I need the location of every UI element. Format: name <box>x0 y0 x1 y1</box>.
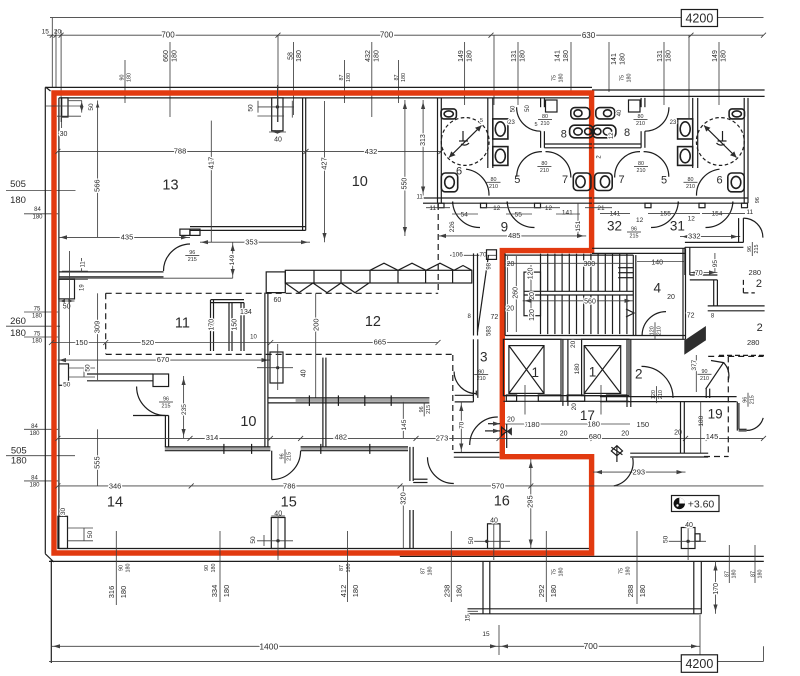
+3.60 level marker <box>672 496 720 512</box>
svg-text:8: 8 <box>624 127 630 139</box>
svg-text:20: 20 <box>506 305 514 312</box>
svg-text:1: 1 <box>589 365 597 380</box>
svg-text:555: 555 <box>92 456 101 469</box>
svg-text:87: 87 <box>339 565 345 571</box>
svg-text:180: 180 <box>10 195 26 206</box>
svg-text:90: 90 <box>204 565 210 571</box>
svg-text:210: 210 <box>477 376 486 382</box>
svg-text:260: 260 <box>513 287 520 299</box>
svg-text:12: 12 <box>545 205 553 212</box>
dim 485 <box>438 235 587 237</box>
svg-text:320: 320 <box>399 492 408 505</box>
dim 788 432 line <box>58 150 441 152</box>
svg-text:180: 180 <box>126 73 132 82</box>
svg-text:90: 90 <box>118 565 124 571</box>
svg-text:170: 170 <box>713 583 720 595</box>
stair mid landing lines <box>524 290 633 292</box>
svg-text:180: 180 <box>172 50 179 62</box>
stairwell top wall black part <box>592 247 686 249</box>
svg-text:72: 72 <box>491 314 499 321</box>
stair outer lines <box>504 253 506 335</box>
stair bottom wall <box>505 335 685 337</box>
heating niche on left wall <box>59 279 75 299</box>
dim 70 <box>690 272 718 274</box>
svg-text:180: 180 <box>222 585 231 598</box>
dim 427 vertical <box>324 101 326 242</box>
svg-text:50: 50 <box>511 105 517 112</box>
svg-text:14: 14 <box>107 495 123 511</box>
left wall start verticals <box>51 18 53 87</box>
elevator shaft 1 <box>503 339 561 395</box>
door jambs room 13 <box>180 229 190 235</box>
svg-text:20: 20 <box>560 431 568 438</box>
long dim line y438 <box>58 437 764 439</box>
svg-text:15: 15 <box>464 614 471 622</box>
svg-text:80: 80 <box>638 114 644 120</box>
svg-text:2: 2 <box>635 366 643 381</box>
svg-text:180: 180 <box>625 567 631 576</box>
svg-text:332: 332 <box>688 232 701 241</box>
svg-text:314: 314 <box>206 433 219 442</box>
svg-text:180: 180 <box>574 363 581 374</box>
svg-text:210: 210 <box>657 326 663 335</box>
svg-text:566: 566 <box>92 179 101 192</box>
bowtie symbol at red corner <box>502 427 507 435</box>
svg-text:149: 149 <box>712 50 719 62</box>
svg-text:210: 210 <box>700 376 709 382</box>
svg-text:12: 12 <box>609 132 615 139</box>
svg-text:412: 412 <box>339 585 348 598</box>
svg-text:292: 292 <box>537 585 546 598</box>
svg-text:1: 1 <box>532 365 540 380</box>
walls below rooms 2/19 <box>630 452 708 454</box>
svg-text:180: 180 <box>32 339 43 345</box>
svg-text:87: 87 <box>339 75 345 81</box>
svg-text:180: 180 <box>346 73 352 82</box>
svg-text:50: 50 <box>663 535 670 543</box>
svg-text:11: 11 <box>80 261 86 268</box>
svg-text:87: 87 <box>750 571 756 577</box>
bottom dim station 292 <box>545 531 547 602</box>
svg-text:20: 20 <box>667 294 675 301</box>
dim 320 rotated <box>402 486 404 549</box>
svg-text:786: 786 <box>283 482 296 491</box>
svg-text:151: 151 <box>575 220 582 231</box>
svg-text:96: 96 <box>163 397 169 403</box>
96/215 rotated near corridor <box>419 402 432 416</box>
svg-text:96: 96 <box>631 227 637 233</box>
svg-text:87: 87 <box>421 568 427 574</box>
svg-text:131: 131 <box>657 50 664 62</box>
svg-text:180: 180 <box>527 420 540 429</box>
stair treads upper flight <box>540 254 542 292</box>
svg-text:95: 95 <box>712 260 719 268</box>
svg-text:11: 11 <box>416 195 423 201</box>
svg-text:180: 180 <box>455 585 464 598</box>
dim 566 vertical <box>97 101 99 238</box>
bottom dim station 238 <box>450 531 452 602</box>
svg-text:200: 200 <box>311 318 320 331</box>
room 14 upper wall with door <box>87 373 153 375</box>
bottom border line <box>49 660 681 662</box>
svg-text:210: 210 <box>540 168 549 174</box>
svg-text:180: 180 <box>731 570 737 579</box>
svg-text:50: 50 <box>250 536 257 544</box>
wall right of elevator 2 <box>626 339 628 407</box>
svg-text:72: 72 <box>687 312 695 319</box>
svg-text:15: 15 <box>281 495 297 511</box>
svg-text:141: 141 <box>562 209 573 216</box>
svg-text:75: 75 <box>551 569 557 575</box>
right zigzag wall upper <box>738 218 740 242</box>
svg-text:149: 149 <box>458 50 465 62</box>
bench zigzag below <box>285 283 369 293</box>
dim 309 vertical <box>97 293 99 342</box>
svg-text:12: 12 <box>493 205 501 212</box>
svg-text:19: 19 <box>79 284 85 291</box>
svg-text:13: 13 <box>162 178 178 194</box>
svg-text:134: 134 <box>240 309 252 316</box>
top dim stations with rotated labels <box>124 60 126 103</box>
svg-text:2: 2 <box>757 322 763 334</box>
svg-text:50: 50 <box>468 537 475 545</box>
dim 353 <box>200 241 310 243</box>
svg-text:40: 40 <box>301 369 308 377</box>
svg-text:16: 16 <box>494 493 510 509</box>
wall between elevators <box>562 339 564 406</box>
section wedges black <box>684 326 706 341</box>
svg-text:700: 700 <box>161 31 175 40</box>
svg-text:788: 788 <box>174 147 187 156</box>
svg-text:215: 215 <box>426 405 432 414</box>
room 19 door arc <box>747 418 764 431</box>
svg-text:560: 560 <box>584 298 596 305</box>
svg-text:90: 90 <box>478 369 484 375</box>
svg-text:316: 316 <box>107 586 116 599</box>
svg-text:180: 180 <box>428 567 434 576</box>
dim line 150 520 665 <box>52 342 439 344</box>
svg-text:154: 154 <box>712 211 723 218</box>
svg-text:180: 180 <box>29 431 40 437</box>
svg-text:180: 180 <box>29 483 40 489</box>
top border line with 4200 label <box>50 17 681 19</box>
svg-text:55: 55 <box>515 211 523 218</box>
door arc room 13 <box>164 244 191 271</box>
svg-text:6: 6 <box>716 174 722 186</box>
svg-text:4200: 4200 <box>685 11 713 25</box>
svg-text:12: 12 <box>365 314 381 330</box>
svg-text:20: 20 <box>507 261 515 268</box>
bathroom block left walls <box>438 98 594 228</box>
dim line 346 786 570 <box>58 485 764 487</box>
svg-text:377: 377 <box>691 359 698 370</box>
wall right of stairs <box>682 248 684 339</box>
wardrobe bench <box>285 270 472 283</box>
svg-text:432: 432 <box>365 50 372 62</box>
diamond symbol <box>611 446 622 456</box>
svg-text:180: 180 <box>11 456 27 467</box>
wall between room 13 and 10 <box>302 98 304 231</box>
door niche to room16 <box>409 447 411 481</box>
svg-text:5: 5 <box>514 174 520 186</box>
svg-text:80: 80 <box>541 161 547 167</box>
south wall of room12 zone gray <box>296 399 430 402</box>
svg-text:630: 630 <box>582 31 596 40</box>
svg-text:96: 96 <box>755 197 761 203</box>
svg-text:215: 215 <box>188 257 197 263</box>
bottom outer wall lines <box>400 555 764 557</box>
svg-text:180: 180 <box>520 50 527 62</box>
svg-text:5: 5 <box>661 174 667 186</box>
svg-text:90: 90 <box>119 75 125 81</box>
bottom 4200 box <box>681 655 717 673</box>
svg-text:20: 20 <box>570 340 577 348</box>
svg-text:50: 50 <box>248 104 255 112</box>
dim 145 rotated <box>402 402 404 439</box>
svg-text:17: 17 <box>580 408 595 423</box>
svg-text:170: 170 <box>209 319 216 331</box>
svg-text:435: 435 <box>121 233 134 242</box>
svg-text:180: 180 <box>626 74 632 83</box>
svg-text:145: 145 <box>706 432 719 441</box>
svg-text:670: 670 <box>157 355 170 364</box>
door arc bottom right area <box>614 458 633 486</box>
svg-text:570: 570 <box>492 482 505 491</box>
svg-text:10: 10 <box>250 334 257 340</box>
elevator shaft 2 <box>582 339 629 395</box>
svg-text:680: 680 <box>589 432 602 441</box>
dim 106 and 70 <box>450 254 497 256</box>
svg-text:87: 87 <box>724 571 730 577</box>
bottom dim station 412 <box>347 531 349 602</box>
svg-text:23: 23 <box>670 120 677 126</box>
svg-text:60: 60 <box>274 297 282 304</box>
svg-text:10: 10 <box>352 174 368 190</box>
bench column left <box>266 272 285 293</box>
pilaster bottom-D <box>681 528 695 549</box>
svg-text:50: 50 <box>87 531 94 539</box>
svg-text:7: 7 <box>562 174 568 186</box>
svg-text:180: 180 <box>466 50 473 62</box>
svg-text:550: 550 <box>401 178 408 190</box>
svg-text:180: 180 <box>32 215 43 221</box>
svg-text:180: 180 <box>757 570 763 579</box>
96/215 rotated right <box>747 242 760 256</box>
door arc top right corner <box>743 218 763 238</box>
svg-text:180: 180 <box>401 73 407 82</box>
dim 377 rotated <box>695 355 697 392</box>
room 12 column <box>270 352 283 383</box>
svg-text:70: 70 <box>459 421 466 429</box>
svg-text:145: 145 <box>401 419 408 430</box>
top wall of rooms 14 15 <box>165 448 271 450</box>
right upper wall double line beyond red <box>592 89 765 91</box>
svg-text:665: 665 <box>374 338 387 347</box>
dim 550 rotated <box>404 100 406 236</box>
svg-text:4: 4 <box>654 281 662 296</box>
svg-text:106: 106 <box>452 251 463 258</box>
dim 332 <box>680 236 740 238</box>
svg-text:40: 40 <box>490 517 498 524</box>
svg-text:40: 40 <box>274 511 282 518</box>
svg-text:98: 98 <box>487 262 493 269</box>
bottom dim station 316 <box>115 531 117 605</box>
svg-text:50: 50 <box>88 103 95 111</box>
svg-text:80: 80 <box>688 177 694 183</box>
duct shaft walls with diagonal <box>473 253 475 335</box>
svg-text:309: 309 <box>92 321 101 334</box>
svg-text:215: 215 <box>287 452 293 461</box>
door label 96/215 <box>185 250 199 263</box>
svg-text:80: 80 <box>638 161 644 167</box>
svg-text:180: 180 <box>558 74 564 83</box>
dim 235 rotated <box>183 376 185 438</box>
svg-text:3: 3 <box>480 350 488 365</box>
svg-text:5: 5 <box>534 122 537 128</box>
bathroom block right (mirrored) <box>592 98 748 228</box>
svg-text:96: 96 <box>747 246 753 252</box>
svg-text:96: 96 <box>189 250 195 256</box>
svg-text:2: 2 <box>756 278 762 290</box>
svg-text:155: 155 <box>660 211 671 218</box>
svg-text:427: 427 <box>320 157 329 170</box>
svg-text:19: 19 <box>708 406 723 421</box>
svg-text:313: 313 <box>420 134 427 146</box>
svg-text:180: 180 <box>666 50 673 62</box>
dim 555 rotated <box>97 429 99 486</box>
wall between 14 and 15 <box>322 358 324 447</box>
svg-text:180: 180 <box>346 564 352 573</box>
pilaster bottom-B <box>271 518 285 549</box>
balcony walls <box>482 561 484 613</box>
elevator door front band <box>503 395 629 397</box>
svg-text:210: 210 <box>637 168 646 174</box>
svg-text:180: 180 <box>119 586 128 599</box>
svg-text:20: 20 <box>54 29 62 36</box>
svg-text:485: 485 <box>508 231 521 240</box>
svg-text:141: 141 <box>555 50 562 62</box>
svg-text:10: 10 <box>240 414 256 430</box>
svg-text:210: 210 <box>541 121 550 127</box>
dim 435 <box>59 236 190 238</box>
svg-text:120: 120 <box>651 390 657 399</box>
svg-text:215: 215 <box>162 404 171 410</box>
svg-text:11: 11 <box>429 205 436 212</box>
svg-text:180: 180 <box>32 314 43 320</box>
svg-text:50: 50 <box>85 364 92 372</box>
svg-text:583: 583 <box>487 325 493 336</box>
svg-text:40: 40 <box>274 137 282 144</box>
svg-text:180: 180 <box>549 585 558 598</box>
dim 170 rotated right <box>715 561 717 613</box>
room 3 door arc <box>454 372 476 394</box>
svg-text:700: 700 <box>380 31 394 40</box>
svg-text:20: 20 <box>621 431 629 438</box>
svg-text:180: 180 <box>638 585 647 598</box>
svg-text:273: 273 <box>436 434 449 443</box>
svg-text:120: 120 <box>529 309 536 321</box>
svg-text:180: 180 <box>620 53 627 65</box>
dim 200 vertical <box>315 293 317 398</box>
svg-text:353: 353 <box>245 237 258 246</box>
entry door wedge <box>706 361 724 390</box>
svg-text:280: 280 <box>747 338 760 347</box>
svg-text:120: 120 <box>528 267 535 279</box>
svg-text:210: 210 <box>489 184 498 190</box>
svg-text:75: 75 <box>619 75 625 81</box>
svg-text:180: 180 <box>125 564 131 573</box>
room 4 door arc <box>642 312 666 335</box>
bottom dim 87 180 right pair <box>728 545 730 583</box>
wall left of room 12 <box>264 293 266 447</box>
svg-text:417: 417 <box>207 157 216 170</box>
corridor wall right lower <box>708 305 765 307</box>
svg-text:75: 75 <box>618 568 624 574</box>
svg-text:84: 84 <box>34 207 41 213</box>
svg-text:70: 70 <box>479 251 487 258</box>
dim 417 vertical <box>210 121 212 243</box>
pilaster top-B with 50 40 <box>272 98 283 131</box>
room 13 lower wall left part <box>59 271 164 273</box>
svg-text:58: 58 <box>288 52 295 60</box>
bottom dim station 334 <box>219 531 221 602</box>
svg-text:96: 96 <box>419 406 425 412</box>
svg-text:150: 150 <box>75 338 88 347</box>
svg-text:215: 215 <box>750 395 756 404</box>
svg-text:140: 140 <box>651 260 663 267</box>
svg-text:54: 54 <box>461 211 469 218</box>
svg-text:87: 87 <box>394 75 400 81</box>
dim 149 vertical small <box>232 242 234 278</box>
svg-text:293: 293 <box>633 467 646 476</box>
door jamb near room 19 <box>705 389 707 398</box>
svg-text:15: 15 <box>42 29 50 36</box>
dashed void room19 <box>727 356 729 457</box>
svg-text:215: 215 <box>754 245 760 254</box>
svg-text:260: 260 <box>10 316 26 327</box>
top dimension line <box>47 34 764 36</box>
svg-text:11: 11 <box>175 315 190 331</box>
svg-text:75: 75 <box>551 75 557 81</box>
jamb near room3 <box>455 394 474 396</box>
svg-text:288: 288 <box>626 585 635 598</box>
svg-text:1400: 1400 <box>259 642 278 652</box>
stair direction arrow <box>626 309 634 317</box>
svg-text:12: 12 <box>688 216 696 223</box>
svg-text:180: 180 <box>374 50 381 62</box>
svg-text:150: 150 <box>231 319 238 331</box>
dim 151 & 226 verticals <box>577 203 579 236</box>
dim 300 vertical left <box>97 343 99 381</box>
dim 70 rotated <box>460 402 462 453</box>
svg-text:23: 23 <box>508 120 515 126</box>
svg-text:50: 50 <box>525 105 531 112</box>
svg-text:235: 235 <box>181 404 188 415</box>
dim 295 rotated <box>530 459 532 549</box>
svg-text:4200: 4200 <box>685 657 713 671</box>
svg-text:180: 180 <box>211 564 217 573</box>
dim 313 rotated <box>422 100 424 196</box>
svg-text:432: 432 <box>365 147 378 156</box>
svg-text:80: 80 <box>542 114 548 120</box>
door 15 arc <box>272 451 301 480</box>
svg-text:30: 30 <box>60 131 68 138</box>
pilaster bottom-C <box>488 524 501 549</box>
svg-text:520: 520 <box>142 338 155 347</box>
room 2 door arc lower <box>642 366 674 398</box>
svg-text:96: 96 <box>280 453 286 459</box>
dashed boundary room 11-12 <box>106 292 439 294</box>
